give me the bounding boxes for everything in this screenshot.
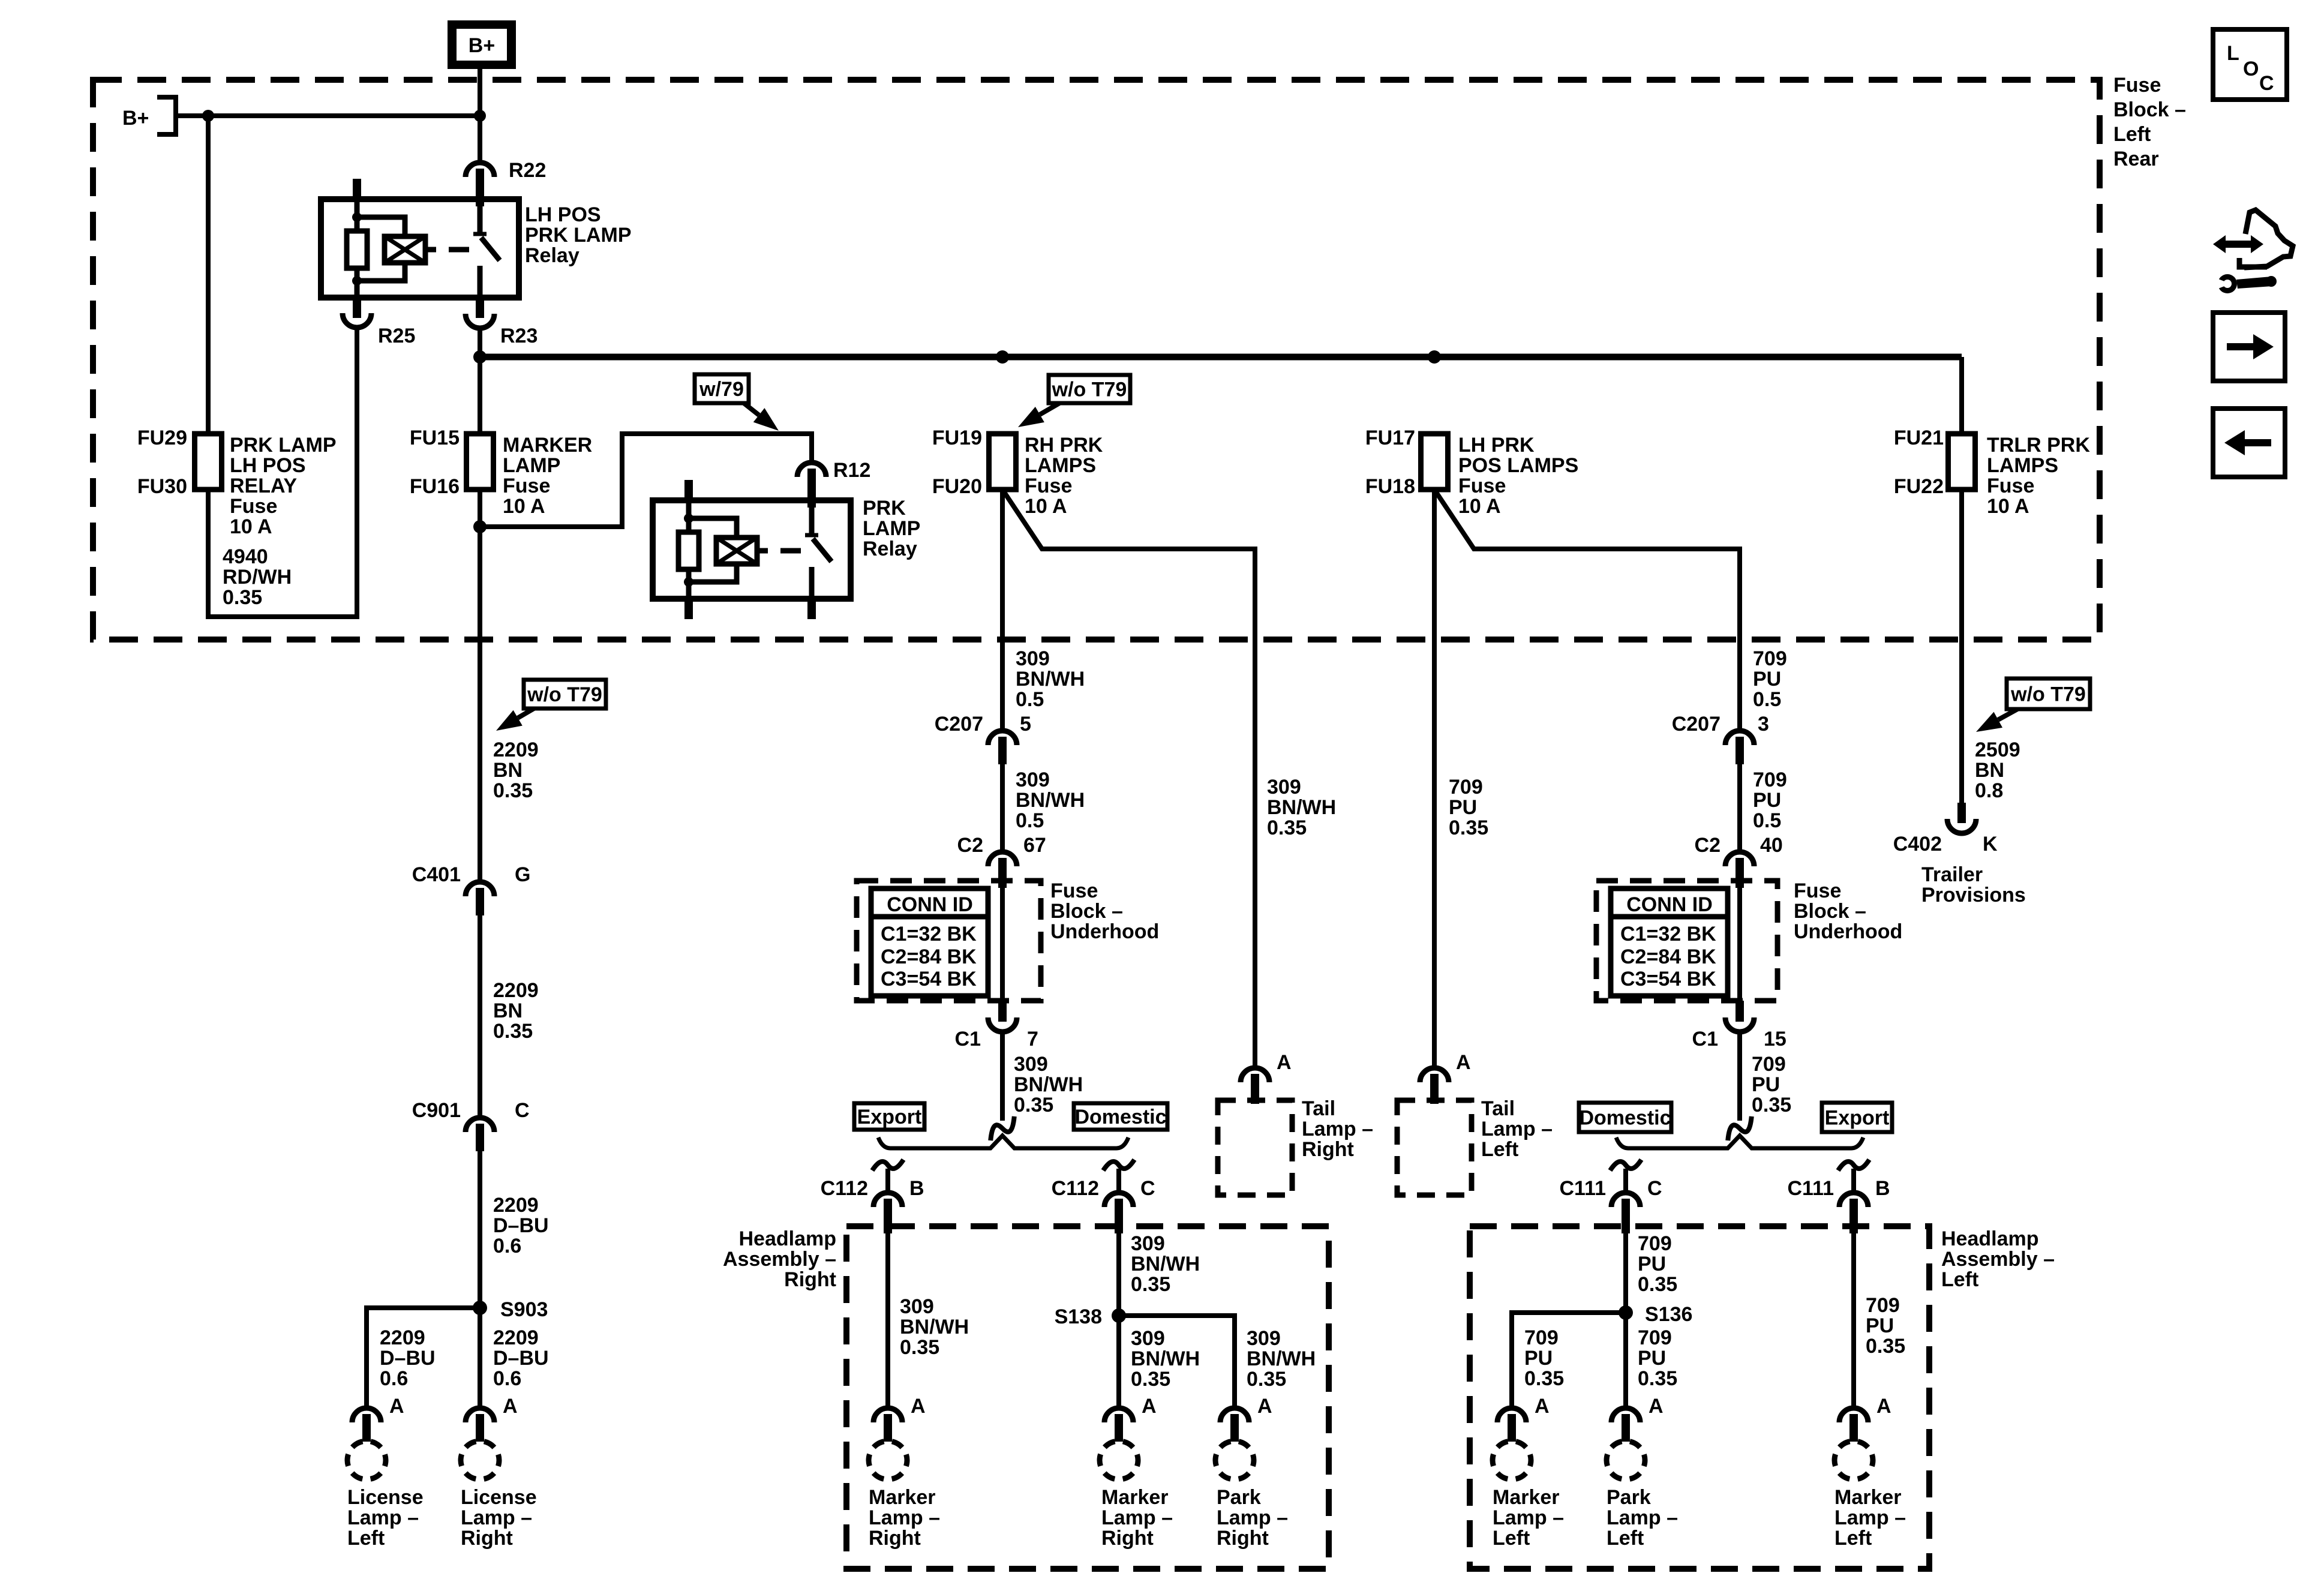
svg-text:C901: C901 xyxy=(412,1099,461,1122)
svg-text:0.35: 0.35 xyxy=(223,586,262,609)
svg-text:FU22: FU22 xyxy=(1894,475,1944,498)
svg-text:709: 709 xyxy=(1638,1326,1672,1349)
svg-text:A: A xyxy=(1257,1395,1272,1418)
svg-text:Left: Left xyxy=(1834,1527,1872,1550)
svg-text:Domestic: Domestic xyxy=(1579,1107,1671,1130)
svg-text:B+: B+ xyxy=(469,34,495,57)
svg-text:PU: PU xyxy=(1449,796,1477,819)
svg-text:0.35: 0.35 xyxy=(1131,1273,1170,1296)
svg-text:15: 15 xyxy=(1764,1028,1786,1050)
svg-text:309: 309 xyxy=(1131,1327,1165,1350)
svg-text:FU21: FU21 xyxy=(1894,427,1944,449)
svg-text:Right: Right xyxy=(784,1268,836,1291)
svg-text:10 A: 10 A xyxy=(1025,495,1067,518)
svg-text:L: L xyxy=(2227,42,2239,65)
svg-text:BN/WH: BN/WH xyxy=(1267,796,1336,819)
svg-text:309: 309 xyxy=(1014,1053,1048,1076)
svg-text:0.6: 0.6 xyxy=(493,1367,521,1390)
svg-text:Fuse: Fuse xyxy=(1025,475,1072,497)
svg-text:Export: Export xyxy=(1825,1107,1890,1130)
svg-text:A: A xyxy=(1142,1395,1157,1418)
svg-text:0.35: 0.35 xyxy=(493,1020,533,1043)
svg-text:Lamp –: Lamp – xyxy=(461,1506,532,1529)
svg-text:10 A: 10 A xyxy=(1458,495,1501,518)
svg-text:0.35: 0.35 xyxy=(1449,816,1488,839)
svg-text:Block –: Block – xyxy=(1050,900,1123,923)
svg-text:Provisions: Provisions xyxy=(1921,884,2026,906)
svg-text:A: A xyxy=(911,1395,926,1418)
svg-text:0.5: 0.5 xyxy=(1753,809,1781,832)
svg-text:G: G xyxy=(515,863,530,886)
svg-text:PU: PU xyxy=(1638,1253,1666,1275)
svg-text:C112: C112 xyxy=(821,1177,868,1200)
svg-text:K: K xyxy=(1983,833,1998,855)
svg-text:Fuse: Fuse xyxy=(1458,475,1506,497)
svg-text:Rear: Rear xyxy=(2113,148,2159,170)
svg-text:0.5: 0.5 xyxy=(1016,688,1044,711)
svg-text:Relay: Relay xyxy=(863,538,917,560)
svg-text:Lamp –: Lamp – xyxy=(347,1506,419,1529)
svg-text:FU17: FU17 xyxy=(1365,427,1415,449)
svg-text:709: 709 xyxy=(1753,647,1787,670)
svg-text:TRLR PRK: TRLR PRK xyxy=(1987,434,2090,457)
svg-text:Lamp –: Lamp – xyxy=(1834,1506,1906,1529)
svg-text:Right: Right xyxy=(1302,1138,1354,1161)
svg-text:40: 40 xyxy=(1760,834,1783,857)
svg-text:LAMP: LAMP xyxy=(863,517,920,540)
svg-text:PRK LAMP: PRK LAMP xyxy=(230,434,337,457)
svg-text:B: B xyxy=(909,1177,924,1200)
svg-text:BN: BN xyxy=(493,999,523,1022)
svg-text:C: C xyxy=(2259,72,2274,95)
svg-text:0.5: 0.5 xyxy=(1016,809,1044,832)
svg-text:C111: C111 xyxy=(1559,1177,1606,1200)
svg-text:MARKER: MARKER xyxy=(503,434,592,457)
svg-text:PU: PU xyxy=(1524,1347,1553,1370)
svg-text:FU19: FU19 xyxy=(932,427,982,449)
svg-text:LAMPS: LAMPS xyxy=(1987,454,2058,477)
svg-text:0.35: 0.35 xyxy=(1267,816,1307,839)
svg-text:RD/WH: RD/WH xyxy=(223,566,292,589)
svg-text:Domestic: Domestic xyxy=(1074,1106,1166,1128)
svg-text:Marker: Marker xyxy=(1101,1486,1169,1509)
svg-text:709: 709 xyxy=(1638,1232,1672,1255)
svg-text:Tail: Tail xyxy=(1481,1097,1515,1120)
svg-text:10 A: 10 A xyxy=(1987,495,2029,518)
svg-text:A: A xyxy=(1535,1395,1550,1418)
svg-text:C1: C1 xyxy=(1692,1028,1718,1050)
svg-text:309: 309 xyxy=(1131,1232,1165,1255)
svg-text:2209: 2209 xyxy=(380,1326,425,1349)
svg-text:Lamp –: Lamp – xyxy=(1493,1506,1564,1529)
svg-text:A: A xyxy=(1876,1395,1891,1418)
svg-text:Right: Right xyxy=(1217,1527,1269,1550)
svg-text:B: B xyxy=(1875,1177,1890,1200)
svg-text:C112: C112 xyxy=(1052,1177,1099,1200)
svg-text:Trailer: Trailer xyxy=(1921,863,1983,886)
svg-text:PU: PU xyxy=(1753,789,1781,812)
svg-text:0.35: 0.35 xyxy=(1638,1367,1677,1390)
svg-text:Right: Right xyxy=(869,1527,921,1550)
svg-text:License: License xyxy=(347,1486,424,1509)
svg-text:0.35: 0.35 xyxy=(1524,1367,1564,1390)
svg-text:FU20: FU20 xyxy=(932,475,982,498)
svg-text:R23: R23 xyxy=(500,325,538,347)
svg-text:709: 709 xyxy=(1866,1294,1900,1317)
svg-text:10 A: 10 A xyxy=(503,495,545,518)
svg-text:LAMP: LAMP xyxy=(503,454,560,477)
svg-text:C2=84 BK: C2=84 BK xyxy=(1620,945,1716,968)
svg-text:C207: C207 xyxy=(1672,713,1721,736)
svg-text:Export: Export xyxy=(857,1106,922,1128)
svg-text:RH PRK: RH PRK xyxy=(1025,434,1103,457)
svg-text:C111: C111 xyxy=(1787,1177,1834,1200)
svg-text:Lamp –: Lamp – xyxy=(869,1506,940,1529)
svg-text:C: C xyxy=(515,1099,530,1122)
svg-text:Right: Right xyxy=(1101,1527,1154,1550)
svg-text:BN/WH: BN/WH xyxy=(1014,1073,1083,1096)
svg-text:BN/WH: BN/WH xyxy=(900,1316,969,1338)
svg-text:3: 3 xyxy=(1758,713,1769,736)
svg-text:Assembly –: Assembly – xyxy=(1941,1248,2055,1271)
svg-text:Left: Left xyxy=(1607,1527,1644,1550)
svg-text:Left: Left xyxy=(2113,123,2151,146)
svg-text:BN/WH: BN/WH xyxy=(1016,668,1085,691)
svg-text:2209: 2209 xyxy=(493,1326,539,1349)
svg-text:Left: Left xyxy=(347,1527,385,1550)
svg-text:License: License xyxy=(461,1486,537,1509)
svg-text:A: A xyxy=(389,1395,404,1418)
svg-text:C3=54 BK: C3=54 BK xyxy=(1620,968,1716,990)
svg-text:D–BU: D–BU xyxy=(380,1347,436,1370)
svg-text:Fuse: Fuse xyxy=(230,495,277,518)
svg-text:Fuse: Fuse xyxy=(2113,74,2161,97)
svg-text:0.35: 0.35 xyxy=(900,1336,939,1359)
svg-text:0.6: 0.6 xyxy=(380,1367,408,1390)
svg-text:Headlamp: Headlamp xyxy=(1941,1227,2039,1250)
svg-text:S136: S136 xyxy=(1645,1303,1692,1326)
svg-text:Right: Right xyxy=(461,1527,513,1550)
svg-text:RELAY: RELAY xyxy=(230,475,297,497)
svg-text:0.35: 0.35 xyxy=(1638,1273,1677,1296)
svg-text:709: 709 xyxy=(1449,776,1483,798)
svg-text:BN: BN xyxy=(1975,759,2004,782)
svg-text:PU: PU xyxy=(1753,668,1781,691)
svg-text:0.35: 0.35 xyxy=(1752,1094,1791,1116)
svg-text:BN/WH: BN/WH xyxy=(1131,1253,1200,1275)
svg-text:w/o T79: w/o T79 xyxy=(527,683,602,706)
svg-text:FU16: FU16 xyxy=(410,475,460,498)
svg-text:0.5: 0.5 xyxy=(1753,688,1781,711)
svg-text:D–BU: D–BU xyxy=(493,1347,549,1370)
svg-text:309: 309 xyxy=(1267,776,1301,798)
svg-text:PU: PU xyxy=(1866,1314,1894,1337)
svg-text:C2: C2 xyxy=(957,834,983,857)
svg-text:POS LAMPS: POS LAMPS xyxy=(1458,454,1578,477)
svg-text:Block –: Block – xyxy=(2113,98,2186,121)
svg-text:709: 709 xyxy=(1752,1053,1786,1076)
svg-text:R12: R12 xyxy=(833,459,870,482)
svg-text:2209: 2209 xyxy=(493,1194,539,1217)
svg-text:309: 309 xyxy=(1016,647,1050,670)
svg-text:Lamp –: Lamp – xyxy=(1481,1118,1553,1140)
svg-text:Park: Park xyxy=(1217,1486,1261,1509)
svg-text:C1: C1 xyxy=(955,1028,981,1050)
svg-text:Relay: Relay xyxy=(525,244,580,267)
svg-text:C1=32 BK: C1=32 BK xyxy=(1620,923,1716,945)
svg-text:C402: C402 xyxy=(1893,833,1942,855)
svg-text:0.35: 0.35 xyxy=(1014,1094,1053,1116)
svg-text:S138: S138 xyxy=(1055,1305,1102,1328)
svg-text:BN/WH: BN/WH xyxy=(1016,789,1085,812)
svg-text:Lamp –: Lamp – xyxy=(1217,1506,1288,1529)
svg-text:PRK LAMP: PRK LAMP xyxy=(525,224,632,247)
svg-text:Lamp –: Lamp – xyxy=(1101,1506,1173,1529)
svg-text:A: A xyxy=(1649,1395,1664,1418)
svg-text:CONN ID: CONN ID xyxy=(887,893,973,916)
svg-text:Tail: Tail xyxy=(1302,1097,1335,1120)
svg-text:w/79: w/79 xyxy=(699,378,744,401)
svg-text:0.35: 0.35 xyxy=(493,779,533,802)
svg-text:BN/WH: BN/WH xyxy=(1247,1347,1316,1370)
svg-text:w/o T79: w/o T79 xyxy=(2010,683,2086,706)
svg-text:C: C xyxy=(1647,1177,1662,1200)
svg-text:10 A: 10 A xyxy=(230,515,272,538)
svg-text:LH PRK: LH PRK xyxy=(1458,434,1535,457)
svg-text:FU30: FU30 xyxy=(137,475,187,498)
svg-text:Lamp –: Lamp – xyxy=(1607,1506,1678,1529)
svg-text:FU18: FU18 xyxy=(1365,475,1415,498)
svg-text:709: 709 xyxy=(1524,1326,1559,1349)
svg-text:Left: Left xyxy=(1493,1527,1530,1550)
svg-text:C207: C207 xyxy=(935,713,983,736)
svg-text:709: 709 xyxy=(1753,769,1787,791)
svg-text:PU: PU xyxy=(1638,1347,1666,1370)
svg-text:Headlamp: Headlamp xyxy=(739,1227,837,1250)
svg-text:BN/WH: BN/WH xyxy=(1131,1347,1200,1370)
svg-text:309: 309 xyxy=(1016,769,1050,791)
svg-text:LAMPS: LAMPS xyxy=(1025,454,1096,477)
svg-text:C: C xyxy=(1140,1177,1155,1200)
svg-text:A: A xyxy=(503,1395,518,1418)
svg-text:Marker: Marker xyxy=(1834,1486,1902,1509)
svg-text:R25: R25 xyxy=(378,325,415,347)
svg-text:B+: B+ xyxy=(122,107,149,130)
svg-text:O: O xyxy=(2243,58,2259,80)
svg-text:LH POS: LH POS xyxy=(230,454,306,477)
svg-text:D–BU: D–BU xyxy=(493,1214,549,1237)
svg-text:Fuse: Fuse xyxy=(1987,475,2034,497)
svg-text:Marker: Marker xyxy=(869,1486,936,1509)
svg-text:C3=54 BK: C3=54 BK xyxy=(881,968,977,990)
svg-text:R22: R22 xyxy=(509,159,546,182)
svg-text:0.8: 0.8 xyxy=(1975,779,2003,802)
svg-text:Fuse: Fuse xyxy=(503,475,550,497)
svg-text:PU: PU xyxy=(1752,1073,1780,1096)
svg-text:0.35: 0.35 xyxy=(1866,1335,1905,1358)
svg-text:4940: 4940 xyxy=(223,545,268,568)
svg-text:2209: 2209 xyxy=(493,739,539,761)
svg-text:Fuse: Fuse xyxy=(1050,879,1098,902)
svg-text:S903: S903 xyxy=(500,1298,548,1321)
svg-text:309: 309 xyxy=(1247,1327,1281,1350)
svg-text:Left: Left xyxy=(1481,1138,1518,1161)
svg-text:C2=84 BK: C2=84 BK xyxy=(881,945,977,968)
svg-text:0.35: 0.35 xyxy=(1131,1368,1170,1391)
svg-text:C1=32 BK: C1=32 BK xyxy=(881,923,977,945)
svg-text:BN: BN xyxy=(493,759,523,782)
svg-text:Underhood: Underhood xyxy=(1794,920,1902,943)
svg-text:Lamp –: Lamp – xyxy=(1302,1118,1373,1140)
svg-text:Left: Left xyxy=(1941,1268,1978,1291)
svg-text:67: 67 xyxy=(1023,834,1046,857)
svg-text:w/o T79: w/o T79 xyxy=(1052,379,1127,401)
svg-text:Park: Park xyxy=(1607,1486,1651,1509)
svg-text:Fuse: Fuse xyxy=(1794,879,1841,902)
svg-text:309: 309 xyxy=(900,1295,934,1318)
svg-text:2209: 2209 xyxy=(493,979,539,1002)
svg-text:C2: C2 xyxy=(1695,834,1721,857)
svg-text:PRK: PRK xyxy=(863,497,906,520)
svg-text:A: A xyxy=(1277,1051,1292,1074)
svg-text:Underhood: Underhood xyxy=(1050,920,1159,943)
svg-text:C401: C401 xyxy=(412,863,461,886)
svg-text:0.35: 0.35 xyxy=(1247,1368,1286,1391)
svg-text:LH POS: LH POS xyxy=(525,203,601,226)
svg-text:Assembly –: Assembly – xyxy=(723,1248,836,1271)
svg-text:0.6: 0.6 xyxy=(493,1235,521,1257)
svg-text:FU29: FU29 xyxy=(137,427,187,449)
svg-text:FU15: FU15 xyxy=(410,427,460,449)
svg-text:2509: 2509 xyxy=(1975,739,2020,761)
svg-text:5: 5 xyxy=(1020,713,1031,736)
svg-text:7: 7 xyxy=(1027,1028,1038,1050)
svg-text:CONN ID: CONN ID xyxy=(1626,893,1713,916)
svg-text:Marker: Marker xyxy=(1493,1486,1560,1509)
svg-text:A: A xyxy=(1456,1051,1471,1074)
svg-text:Block –: Block – xyxy=(1794,900,1866,923)
